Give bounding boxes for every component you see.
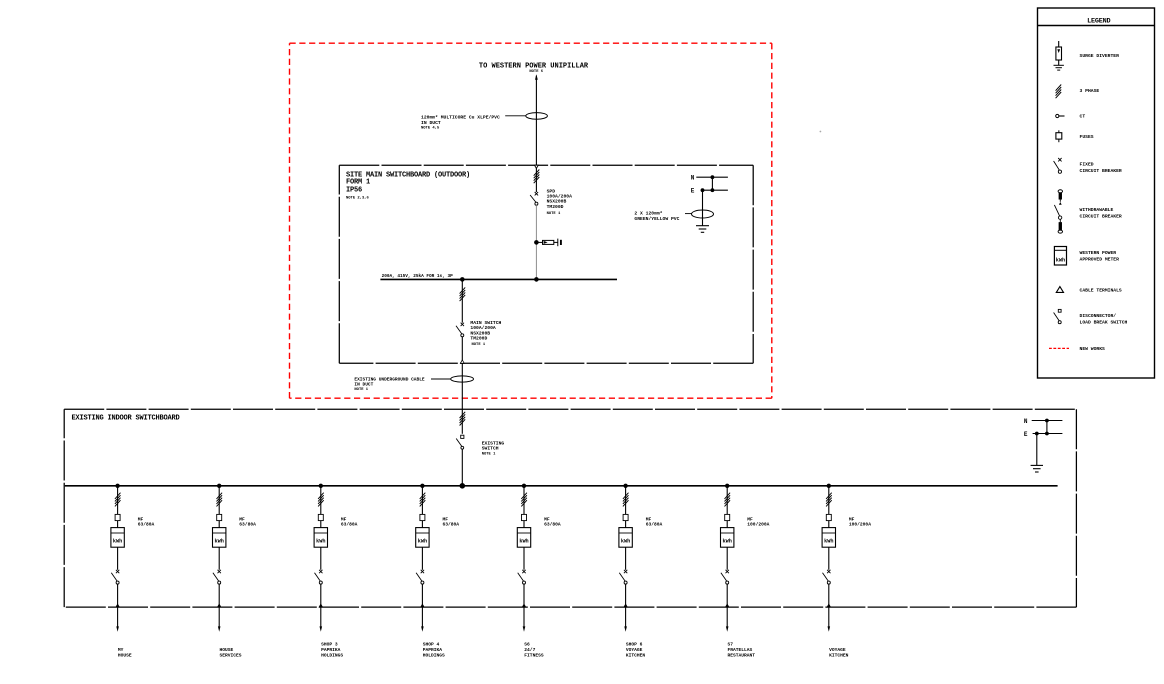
svg-text:NOTE 1: NOTE 1 — [472, 343, 486, 347]
svg-text:S7: S7 — [728, 642, 734, 648]
svg-text:DISCONNECTOR/: DISCONNECTOR/ — [1080, 313, 1117, 319]
svg-text:NSX200B: NSX200B — [547, 199, 567, 205]
svg-text:RESTAURANT: RESTAURANT — [728, 652, 756, 658]
svg-text:63/80A: 63/80A — [443, 522, 460, 528]
svg-text:MF: MF — [239, 516, 245, 522]
svg-text:SURGE DIVERTER: SURGE DIVERTER — [1080, 53, 1120, 59]
svg-text:kWh: kWh — [1056, 258, 1065, 264]
svg-text:CABLE TERMINALS: CABLE TERMINALS — [1080, 288, 1122, 294]
svg-text:MY: MY — [118, 647, 124, 653]
svg-text:63/80A: 63/80A — [138, 522, 155, 528]
svg-text:NOTE 6: NOTE 6 — [529, 70, 543, 74]
svg-text:S6: S6 — [524, 642, 530, 648]
svg-text:kWh: kWh — [824, 538, 833, 544]
svg-text:NOTE 1: NOTE 1 — [547, 212, 561, 216]
svg-text:KITCHEN: KITCHEN — [626, 652, 646, 658]
svg-text:LOAD BREAK SWITCH: LOAD BREAK SWITCH — [1080, 320, 1128, 326]
svg-text:kWh: kWh — [418, 538, 427, 544]
svg-text:SHOP 6: SHOP 6 — [626, 642, 643, 648]
svg-text:MF: MF — [849, 516, 855, 522]
svg-text:WITHDRAWABLE: WITHDRAWABLE — [1080, 207, 1114, 213]
svg-text:2 X 120mm²: 2 X 120mm² — [634, 211, 662, 217]
svg-text:IP56: IP56 — [346, 186, 362, 194]
svg-text:IN DUCT: IN DUCT — [354, 381, 373, 387]
svg-text:NSX200B: NSX200B — [470, 330, 490, 336]
svg-text:kWh: kWh — [316, 538, 325, 544]
svg-text:100/200A: 100/200A — [849, 522, 871, 528]
svg-text:SHOP 3: SHOP 3 — [321, 642, 338, 648]
svg-text:VOYAGE: VOYAGE — [829, 647, 846, 653]
svg-text:63/80A: 63/80A — [646, 522, 663, 528]
svg-text:100A/200A: 100A/200A — [470, 325, 496, 331]
svg-text:PAPRIKA: PAPRIKA — [423, 647, 443, 653]
svg-text:NEW WORKS: NEW WORKS — [1080, 346, 1106, 352]
svg-text:HOLDINGS: HOLDINGS — [423, 652, 445, 658]
svg-text:MF: MF — [138, 516, 144, 522]
svg-text:100A/200A: 100A/200A — [547, 193, 573, 199]
svg-text:GREEN/YELLOW PVC: GREEN/YELLOW PVC — [634, 216, 679, 222]
svg-text:MAIN SWITCH: MAIN SWITCH — [470, 320, 501, 326]
svg-text:CT: CT — [1080, 114, 1086, 120]
svg-text:SHOP 4: SHOP 4 — [423, 642, 440, 648]
svg-text:NOTE 1: NOTE 1 — [354, 388, 368, 392]
svg-text:NOTE 2,3,6: NOTE 2,3,6 — [346, 196, 370, 200]
svg-text:FUSES: FUSES — [1080, 134, 1094, 140]
svg-text:NOTE 4,5: NOTE 4,5 — [421, 126, 440, 130]
svg-text:kWh: kWh — [519, 538, 528, 544]
svg-text:120mm² MULTICORE Cu XLPE/PVC: 120mm² MULTICORE Cu XLPE/PVC — [421, 115, 500, 121]
svg-text:LEGEND: LEGEND — [1087, 18, 1110, 26]
svg-text:24/7: 24/7 — [524, 647, 535, 653]
svg-text:kWh: kWh — [723, 538, 732, 544]
svg-text:PAPRIKA: PAPRIKA — [321, 647, 341, 653]
svg-text:FITNESS: FITNESS — [524, 652, 544, 658]
svg-text:FORM 1: FORM 1 — [346, 178, 370, 186]
svg-text:MF: MF — [747, 516, 753, 522]
svg-text:TM200D: TM200D — [547, 204, 564, 210]
svg-text:CIRCUIT BREAKER: CIRCUIT BREAKER — [1080, 214, 1122, 220]
svg-text:kWh: kWh — [621, 538, 630, 544]
svg-text:SPD: SPD — [547, 188, 556, 194]
svg-text:3 PHASE: 3 PHASE — [1080, 88, 1100, 94]
svg-text:SWITCH: SWITCH — [482, 446, 499, 452]
svg-text:FIXED: FIXED — [1080, 161, 1094, 167]
svg-text:MF: MF — [341, 516, 347, 522]
svg-text:MF: MF — [646, 516, 652, 522]
svg-text:E: E — [1024, 431, 1028, 438]
svg-text:IN DUCT: IN DUCT — [421, 120, 441, 126]
svg-text:N: N — [691, 174, 695, 181]
svg-text:VOYAGE: VOYAGE — [626, 647, 643, 653]
svg-text:kWh: kWh — [215, 538, 224, 544]
svg-text:100/200A: 100/200A — [747, 522, 769, 528]
svg-text:HOUSE: HOUSE — [118, 652, 132, 658]
svg-text:E: E — [691, 187, 695, 194]
svg-text:63/80A: 63/80A — [239, 522, 256, 528]
svg-text:EXISTING INDOOR SWITCHBOARD: EXISTING INDOOR SWITCHBOARD — [72, 414, 180, 422]
svg-text:HOLDINGS: HOLDINGS — [321, 652, 343, 658]
svg-text:NOTE 1: NOTE 1 — [482, 453, 496, 457]
svg-text:63/80A: 63/80A — [341, 522, 358, 528]
svg-text:FRATELLAS: FRATELLAS — [728, 647, 753, 653]
svg-text:APPROVED METER: APPROVED METER — [1080, 257, 1120, 263]
svg-text:KITCHEN: KITCHEN — [829, 652, 849, 658]
svg-text:200A, 415V, 25kA FOR 1s, 3P: 200A, 415V, 25kA FOR 1s, 3P — [382, 274, 454, 279]
svg-text:MF: MF — [544, 516, 550, 522]
svg-text:63/80A: 63/80A — [544, 522, 561, 528]
svg-text:kWh: kWh — [113, 538, 122, 544]
svg-text:SERVICES: SERVICES — [220, 652, 242, 658]
svg-text:TM200D: TM200D — [470, 335, 487, 341]
svg-text:N: N — [1024, 418, 1028, 425]
svg-text:MF: MF — [443, 516, 449, 522]
svg-text:WESTERN POWER: WESTERN POWER — [1080, 250, 1117, 256]
svg-text:CIRCUIT BREAKER: CIRCUIT BREAKER — [1080, 168, 1122, 174]
svg-text:HOUSE: HOUSE — [220, 647, 234, 653]
